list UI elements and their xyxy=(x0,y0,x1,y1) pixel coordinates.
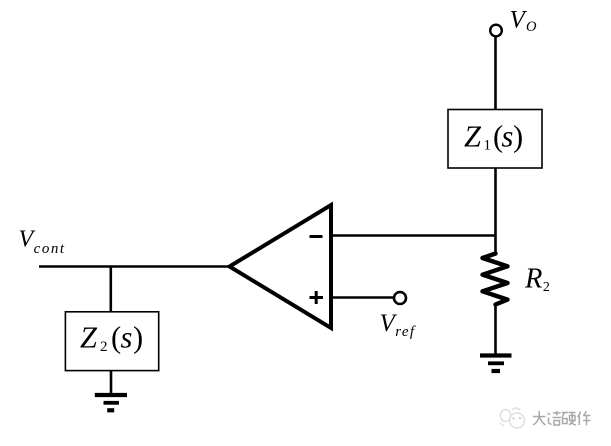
wire xyxy=(39,265,230,268)
ground xyxy=(95,395,127,410)
svg-text:Z: Z xyxy=(80,320,98,354)
svg-text:2: 2 xyxy=(100,339,108,355)
terminal V_ref xyxy=(394,292,406,304)
svg-text:): ) xyxy=(513,119,523,153)
watermark logo xyxy=(500,408,525,428)
svg-text:s: s xyxy=(121,320,133,354)
svg-text:Vcont: Vcont xyxy=(19,226,66,257)
impedance Z1 xyxy=(448,110,542,169)
svg-text:): ) xyxy=(133,320,143,354)
label Z1(s) xyxy=(464,119,523,153)
label Z2(s) xyxy=(80,320,143,354)
wire xyxy=(494,168,497,254)
impedance Z2 xyxy=(65,312,158,371)
wire xyxy=(330,234,496,237)
svg-text:Z: Z xyxy=(464,119,482,153)
ground xyxy=(480,356,512,372)
op-amp U1 minus pin mark xyxy=(310,235,323,238)
op-amp U1 plus pin mark xyxy=(310,291,324,304)
wire xyxy=(110,371,113,394)
wire xyxy=(494,37,497,110)
watermark text 大话硬件 xyxy=(533,411,591,425)
svg-text:Vref: Vref xyxy=(380,310,416,340)
terminal V_O xyxy=(490,25,502,37)
wire xyxy=(494,305,497,355)
wire xyxy=(331,296,394,299)
svg-text:VO: VO xyxy=(510,7,537,36)
wire xyxy=(110,267,113,313)
svg-text:1: 1 xyxy=(484,137,492,153)
op-amp U1 xyxy=(230,205,332,328)
svg-text:R2: R2 xyxy=(524,263,550,295)
svg-text:s: s xyxy=(502,119,514,153)
resistor R2 xyxy=(483,254,508,305)
